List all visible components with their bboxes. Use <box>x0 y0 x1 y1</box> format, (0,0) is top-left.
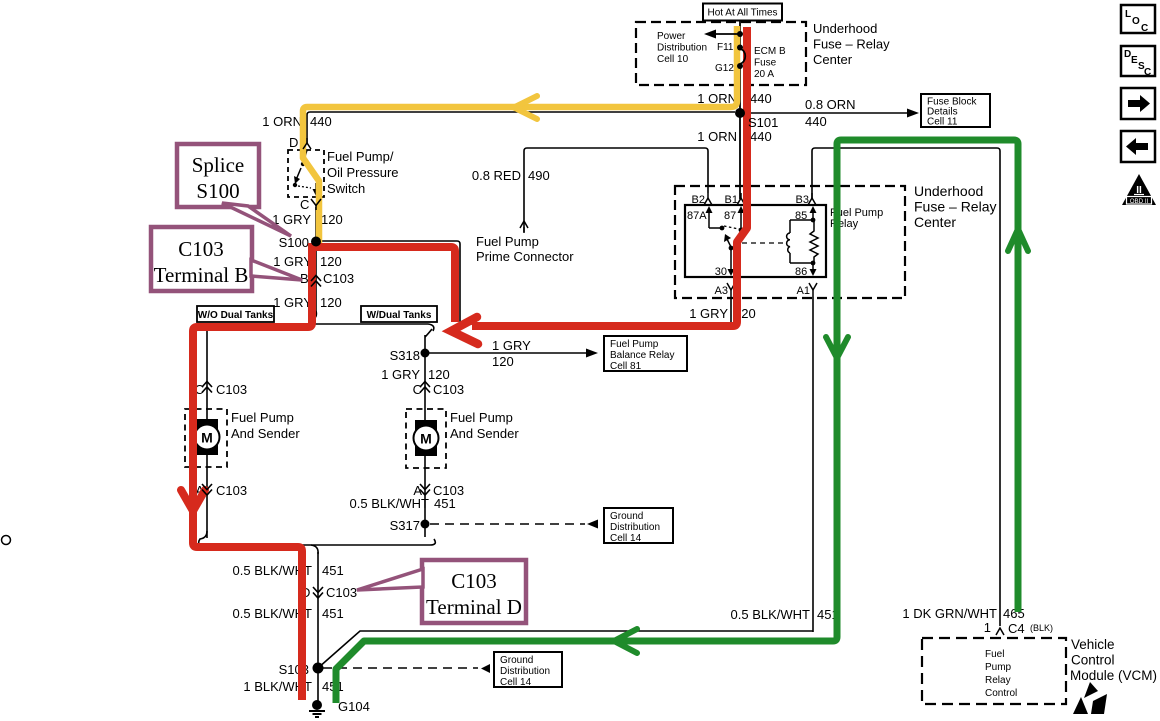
wire label 1 GRY 120 (A3) <box>689 306 755 321</box>
reference box Ground Distribution Cell 14 (S103) <box>494 652 562 688</box>
svg-text:1: 1 <box>984 620 991 635</box>
red arrow down <box>181 490 205 511</box>
relay terminal B2 <box>692 193 712 206</box>
connector chevrons C C103 right pump <box>420 382 430 393</box>
terminal label D C103 <box>301 585 357 600</box>
svg-text:Cell 10: Cell 10 <box>657 54 689 65</box>
svg-text:C: C <box>1144 67 1151 78</box>
relay box fuel pump relay <box>685 205 826 277</box>
svg-text:Splice: Splice <box>192 153 245 177</box>
splice dot S318 <box>421 349 430 358</box>
relay pin 87A <box>687 206 724 230</box>
icon box DESC <box>1121 46 1155 78</box>
wire left pump lower <box>206 450 208 538</box>
component text Fuel Pump Prime Connector <box>476 234 574 264</box>
svg-text:Fuse – Relay: Fuse – Relay <box>813 37 890 52</box>
svg-text:Terminal D: Terminal D <box>426 595 522 619</box>
dashed box Underhood Fuse-Relay Center (relay) <box>675 186 905 298</box>
svg-text:Underhood: Underhood <box>813 21 877 36</box>
svg-text:Cell 14: Cell 14 <box>500 677 532 688</box>
wire label 0.8 ORN 440 <box>805 97 856 129</box>
relay pin 85 <box>795 206 817 222</box>
svg-text:Control: Control <box>985 688 1017 699</box>
svg-text:(BLK): (BLK) <box>1030 623 1053 633</box>
svg-text:S318: S318 <box>390 348 420 363</box>
component text Fuel Pump Relay <box>830 207 883 230</box>
wire switch C to S100 <box>315 207 317 241</box>
reference box Fuse Block Details Cell 11 <box>921 94 990 128</box>
svg-text:440: 440 <box>750 91 772 106</box>
svg-text:C103: C103 <box>216 483 247 498</box>
svg-text:S317: S317 <box>390 518 420 533</box>
svg-text:S101: S101 <box>748 115 778 130</box>
terminal label A C103 (right pump) <box>413 483 464 498</box>
svg-text:1 ORN: 1 ORN <box>262 114 302 129</box>
svg-text:Distribution: Distribution <box>500 666 550 677</box>
reference box Fuel Pump Balance Relay Cell 81 <box>604 336 687 372</box>
junction dot at power distribution arrow <box>737 31 743 37</box>
svg-text:OBD II: OBD II <box>1130 198 1149 205</box>
icon OBD II triangle <box>1122 174 1156 205</box>
svg-text:And Sender: And Sender <box>450 426 519 441</box>
svg-text:451: 451 <box>322 606 344 621</box>
text Vehicle Control Module (VCM) <box>1070 637 1157 683</box>
green arrow up <box>1008 229 1028 251</box>
svg-text:Switch: Switch <box>327 181 365 196</box>
svg-text:120: 120 <box>428 367 450 382</box>
highlight wire green VCM control path <box>336 140 1018 703</box>
svg-text:Fuse: Fuse <box>754 58 777 69</box>
svg-text:Center: Center <box>914 214 956 230</box>
fuse ECM B 20A label <box>754 46 786 80</box>
svg-text:Fuel Pump: Fuel Pump <box>231 410 294 425</box>
svg-text:C103: C103 <box>216 382 247 397</box>
svg-text:1 GRY: 1 GRY <box>273 295 312 310</box>
svg-text:Fuel Pump/: Fuel Pump/ <box>327 149 394 164</box>
svg-text:Hot At All Times: Hot At All Times <box>707 8 777 19</box>
component text Fuel Pump And Sender (right) <box>450 410 519 441</box>
relay pin 86 <box>795 263 817 278</box>
relay pin 87 <box>724 206 745 232</box>
text Fuel Pump Relay Control <box>985 649 1017 699</box>
svg-text:W/O Dual Tanks: W/O Dual Tanks <box>198 310 274 321</box>
svg-text:1 GRY: 1 GRY <box>273 254 312 269</box>
fuse element symbol <box>740 49 745 64</box>
svg-text:Cell 14: Cell 14 <box>610 533 642 544</box>
relay terminal A3 <box>715 283 735 297</box>
wire A3 down leg <box>730 297 732 324</box>
wire S318 to Fuel Pump Balance Relay <box>425 349 598 358</box>
wire S101 to Fuse Block Details <box>740 109 919 118</box>
connector chevrons A C103 right pump <box>420 484 430 495</box>
svg-text:440: 440 <box>750 129 772 144</box>
svg-text:Balance Relay: Balance Relay <box>610 350 674 361</box>
wire S100 down to branch <box>315 241 317 316</box>
option box W/Dual Tanks <box>361 306 437 322</box>
dashed box right fuel pump <box>406 409 446 468</box>
relay coil element <box>787 218 816 266</box>
decorative circle left edge <box>2 536 11 545</box>
svg-text:ECM B: ECM B <box>754 46 786 57</box>
svg-text:0.8 RED: 0.8 RED <box>472 168 521 183</box>
svg-text:L: L <box>1125 9 1131 20</box>
wire hot feed vertical <box>739 20 741 199</box>
svg-text:440: 440 <box>310 114 332 129</box>
svg-text:G104: G104 <box>338 699 370 714</box>
prime connector end symbol <box>520 221 528 233</box>
svg-text:86: 86 <box>795 266 807 278</box>
relay terminal B1 <box>725 193 745 206</box>
wire left pump riser <box>206 330 208 424</box>
relay coil dashed link <box>742 242 786 244</box>
svg-text:Prime Connector: Prime Connector <box>476 249 574 264</box>
svg-text:0.5 BLK/WHT: 0.5 BLK/WHT <box>731 607 811 622</box>
svg-text:Fuel Pump: Fuel Pump <box>476 234 539 249</box>
svg-text:Distribution: Distribution <box>610 522 660 533</box>
svg-text:Fuse – Relay: Fuse – Relay <box>914 199 996 215</box>
svg-text:451: 451 <box>322 563 344 578</box>
callout box C103 Terminal B <box>151 227 252 291</box>
callout pointer to terminal B <box>251 260 302 280</box>
splice dot S317 <box>421 520 430 529</box>
green arrow left <box>614 629 637 653</box>
svg-text:And Sender: And Sender <box>231 426 300 441</box>
junction dot G12 <box>737 63 743 69</box>
red arrow left into branch <box>451 317 478 344</box>
splice dot S101 <box>735 108 745 118</box>
svg-text:1 ORN: 1 ORN <box>697 129 737 144</box>
svg-text:C103: C103 <box>451 569 497 593</box>
svg-text:Terminal B: Terminal B <box>154 263 249 287</box>
wire label 1 GRY 120 (below S100) <box>273 254 341 269</box>
dashed wire S317 to Ground Distribution <box>430 520 598 529</box>
terminal label B C103 <box>300 271 354 286</box>
svg-text:120: 120 <box>321 212 343 227</box>
relay switch blade <box>724 234 733 250</box>
splice dot S103 <box>313 663 324 674</box>
svg-text:C103: C103 <box>323 271 354 286</box>
splice dot S100 <box>311 237 321 247</box>
callout pointer to S100 <box>222 203 291 236</box>
wire orange horizontal under yellow <box>307 112 735 143</box>
svg-text:A1: A1 <box>797 285 810 297</box>
terminal D caret (switch) <box>303 138 311 149</box>
svg-text:87A: 87A <box>687 210 707 222</box>
wire label 1 GRY 120 (balance relay) <box>492 338 531 369</box>
svg-text:0.5 BLK/WHT: 0.5 BLK/WHT <box>350 496 430 511</box>
relay pin 30 <box>715 248 735 278</box>
switch pole and blade <box>293 150 320 196</box>
svg-text:1 GRY: 1 GRY <box>381 367 420 382</box>
reference box Ground Distribution Cell 14 (S317) <box>604 508 673 544</box>
terminal label A C103 (left pump) <box>195 483 247 498</box>
wire S103 diagonal to A1 ground run <box>318 631 813 668</box>
ground symbol G104 <box>309 699 370 717</box>
svg-text:30: 30 <box>715 266 727 278</box>
label box Hot At All Times <box>703 4 782 21</box>
svg-text:C103: C103 <box>178 237 224 261</box>
relay terminal A1 <box>797 283 817 297</box>
svg-text:1 GRY: 1 GRY <box>689 306 728 321</box>
junction dot F11 <box>737 45 743 51</box>
connector chevrons D C103 <box>313 587 323 598</box>
connector chevrons B C103 <box>311 276 321 287</box>
branch curl center <box>311 311 316 320</box>
dashed box Vehicle Control Module <box>922 638 1066 704</box>
relay contact dashed link <box>724 226 739 229</box>
yellow arrow left <box>514 96 537 119</box>
dashed wire S103 to Ground Distribution <box>323 664 490 673</box>
wire bottom join bracket <box>199 531 436 545</box>
svg-text:120: 120 <box>492 354 514 369</box>
ESD sensitive symbol <box>1073 682 1107 714</box>
svg-text:Underhood: Underhood <box>914 183 983 199</box>
svg-text:C: C <box>413 382 422 397</box>
svg-text:Center: Center <box>813 52 853 67</box>
reference text Power Distribution Cell 10 <box>657 31 707 65</box>
svg-text:490: 490 <box>528 168 550 183</box>
svg-text:120: 120 <box>320 295 342 310</box>
svg-text:Control: Control <box>1071 653 1115 668</box>
wire A1 down leg <box>812 297 814 632</box>
wire arrow to Power Distribution <box>704 30 740 39</box>
svg-text:Pump: Pump <box>985 662 1012 673</box>
wire label 1 ORN 440 (left corner) <box>262 114 331 129</box>
svg-text:Ground: Ground <box>500 655 533 666</box>
svg-text:D: D <box>289 135 298 150</box>
dashed box fuel pump oil pressure switch <box>288 150 324 197</box>
svg-text:440: 440 <box>805 114 827 129</box>
wire label 0.5 BLK/WHT 451 (upper) <box>233 563 344 578</box>
svg-text:C: C <box>300 197 309 212</box>
svg-text:A3: A3 <box>715 285 728 297</box>
wire right pump lower <box>424 451 426 537</box>
green arrow down <box>826 337 848 358</box>
callout box C103 Terminal D <box>422 560 526 623</box>
svg-text:451: 451 <box>434 496 456 511</box>
highlight wire red S100 right branch <box>312 247 455 322</box>
svg-text:Fuel Pump: Fuel Pump <box>450 410 513 425</box>
connector chevrons A C103 left pump <box>202 484 212 495</box>
svg-text:0.8 ORN: 0.8 ORN <box>805 97 856 112</box>
wire ground column <box>317 552 319 701</box>
svg-text:1 GRY: 1 GRY <box>492 338 531 353</box>
icon box arrow left <box>1121 131 1155 162</box>
terminal label C C103 (left pump) <box>195 382 247 397</box>
wire label 1 GRY 120 (above S100) <box>272 212 342 227</box>
callout pointer to terminal D <box>357 569 423 590</box>
svg-text:20 A: 20 A <box>754 69 774 80</box>
icon box arrow right <box>1121 88 1155 119</box>
svg-text:Fuel Pump: Fuel Pump <box>610 339 659 350</box>
wire label 1 GRY 120 (above branch) <box>273 295 341 310</box>
svg-text:S100: S100 <box>279 235 309 250</box>
svg-text:Cell 11: Cell 11 <box>927 117 958 128</box>
svg-text:O: O <box>1132 16 1140 27</box>
svg-text:120: 120 <box>320 254 342 269</box>
bottom bracket curl center <box>311 545 318 554</box>
svg-text:M: M <box>420 431 432 447</box>
svg-text:Power: Power <box>657 31 686 42</box>
connector chevrons C C103 left pump <box>202 382 212 393</box>
dashed box left fuel pump <box>185 409 227 467</box>
wire label 1 ORN 440 (above S101) <box>697 91 771 106</box>
svg-text:C4: C4 <box>1008 621 1025 636</box>
svg-text:Vehicle: Vehicle <box>1071 637 1115 652</box>
relay resistor element <box>810 220 818 263</box>
svg-text:1 DK GRN/WHT: 1 DK GRN/WHT <box>902 606 997 621</box>
wire label 1 BLK/WHT 451 <box>243 679 343 694</box>
svg-text:Cell 81: Cell 81 <box>610 361 642 372</box>
svg-text:Relay: Relay <box>985 675 1011 686</box>
highlight wire red feed path <box>472 27 747 326</box>
icon box LOC <box>1121 5 1155 34</box>
motor M right fuel pump <box>414 420 439 456</box>
svg-text:M: M <box>201 430 213 446</box>
wire label 0.8 RED 490 <box>472 168 550 183</box>
wire label 1 GRY 120 (below S318) <box>381 367 449 382</box>
relay terminal B3 <box>796 193 816 206</box>
wire DK GRN/WHT 465 coil feed <box>812 148 1000 626</box>
wire label 1 ORN 440 (below S101) <box>697 129 771 144</box>
svg-text:Oil Pressure: Oil Pressure <box>327 165 399 180</box>
svg-text:F11: F11 <box>717 42 734 53</box>
svg-text:87: 87 <box>724 210 736 222</box>
svg-text:C103: C103 <box>433 382 464 397</box>
svg-text:S100: S100 <box>196 179 239 203</box>
wire branch bracket top <box>198 324 434 331</box>
wire label 0.5 BLK/WHT 451 (right pump) <box>350 496 456 511</box>
wire 0.8 RED 490 prime connector feed <box>524 148 708 232</box>
svg-text:W/Dual Tanks: W/Dual Tanks <box>367 310 432 321</box>
wire label 0.5 BLK/WHT 451 (A1 leg) <box>731 607 839 622</box>
option box W/O Dual Tanks <box>197 306 274 322</box>
wire S100 right branch <box>316 241 731 324</box>
component text Fuel Pump / Oil Pressure Switch <box>327 149 399 196</box>
svg-text:Fuel: Fuel <box>985 649 1004 660</box>
branch curl right <box>425 329 432 337</box>
dashed box Underhood Fuse-Relay Center (power distribution) <box>636 22 806 85</box>
text Underhood Fuse-Relay Center (top) <box>813 21 890 67</box>
highlight wire red S100 to ground path <box>193 243 312 700</box>
motor M left fuel pump <box>195 419 220 455</box>
svg-text:E: E <box>1131 55 1138 66</box>
terminal C caret (switch) <box>311 199 321 210</box>
VCM pin 1 C4 (BLK) <box>984 620 1053 636</box>
wire label 1 DK GRN/WHT 465 <box>902 606 1024 621</box>
text Underhood Fuse-Relay Center (relay) <box>914 183 996 230</box>
svg-text:Distribution: Distribution <box>657 43 707 54</box>
callout box Splice S100 <box>177 144 259 207</box>
svg-text:Ground: Ground <box>610 511 643 522</box>
terminal label C C103 (right pump) <box>413 382 464 397</box>
svg-text:G12: G12 <box>715 63 734 74</box>
wire label 0.5 BLK/WHT 451 (lower) <box>233 606 344 621</box>
component text Fuel Pump And Sender (left) <box>231 410 300 441</box>
wire S318 riser <box>424 335 426 424</box>
svg-text:C: C <box>1141 23 1148 34</box>
svg-text:1 GRY: 1 GRY <box>272 212 311 227</box>
svg-text:Module (VCM): Module (VCM) <box>1070 668 1157 683</box>
highlight wire yellow hot feed <box>303 26 737 246</box>
svg-text:C103: C103 <box>326 585 357 600</box>
